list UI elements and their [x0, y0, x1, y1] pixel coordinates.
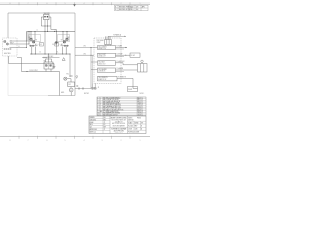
side fitting mark	[77, 85, 78, 86]
drain wire bottom	[75, 88, 91, 90]
meter right jog	[51, 26, 56, 32]
motor ground wire	[70, 92, 72, 96]
aux link K2	[59, 43, 61, 45]
contactor K2 coil terminals	[64, 45, 68, 47]
svg-text:6: 6	[47, 140, 48, 142]
switch box S1	[68, 82, 75, 87]
sheet top border outer line	[0, 2, 150, 4]
svg-text:RM: RM	[104, 119, 106, 121]
contactor K2 contact 2	[63, 41, 66, 44]
TB1 top arrow wire	[108, 35, 126, 37]
contactor K2 output	[65, 47, 67, 54]
connector J1 terminal dots	[4, 48, 11, 49]
aux block K1	[40, 43, 44, 47]
TB1 row 2 exit wire	[116, 54, 128, 56]
company block divider	[110, 126, 128, 128]
contactor K2 coil line	[61, 45, 69, 47]
enclosure box left edge lower faded	[7, 56, 9, 96]
svg-text:B221: B221	[138, 99, 141, 101]
svg-text:97: 97	[61, 40, 63, 42]
drain wire terminals	[78, 88, 84, 90]
TB1 left bus b	[92, 55, 94, 83]
TB1 row 1 exit wire b	[116, 48, 125, 50]
svg-text:B: B	[141, 125, 142, 127]
TB1 row 1 exit wire	[116, 47, 128, 49]
contactor K1 coil terminals	[30, 45, 34, 47]
lamp to switch wire	[67, 79, 71, 82]
approval rows left	[89, 116, 110, 134]
aux link K1	[38, 43, 40, 45]
top border zone ticks	[19, 2, 130, 5]
motor feed wire	[70, 87, 72, 89]
parts list row lines	[97, 99, 146, 114]
svg-text:STRIP: STRIP	[97, 42, 101, 44]
svg-text:TO PUMP: TO PUMP	[117, 53, 123, 55]
svg-text:GND: GND	[61, 92, 64, 94]
top border zone numerals	[10, 3, 141, 5]
svg-text:ENGR: ENGR	[90, 122, 94, 124]
svg-text:115V CONT: 115V CONT	[30, 70, 38, 72]
svg-text:CHECKED: CHECKED	[90, 119, 96, 121]
svg-text:D416: D416	[138, 108, 141, 110]
svg-text:WH MTR: WH MTR	[44, 13, 50, 15]
svg-text:FU: FU	[52, 44, 54, 46]
svg-text:FSCM: FSCM	[137, 117, 141, 119]
svg-text:DH: DH	[136, 6, 138, 8]
svg-text:1: 1	[140, 140, 141, 142]
sheet bottom border line	[0, 136, 150, 138]
bulkhead fitting	[76, 76, 78, 79]
svg-text:1190: 1190	[135, 128, 138, 130]
TB1 module pins up	[106, 36, 111, 39]
enclosure box left edge upper	[7, 13, 9, 38]
svg-text:PUMP: PUMP	[128, 89, 132, 91]
enclosure box right edge	[74, 13, 76, 96]
svg-text:8: 8	[10, 140, 11, 142]
bottom connector J2	[92, 87, 97, 89]
meter link dots	[45, 26, 49, 27]
svg-text:B222: B222	[138, 101, 141, 103]
wire phase A	[10, 32, 28, 42]
svg-text:TB1-2 CONT: TB1-2 CONT	[98, 54, 106, 56]
svg-text:SIZE B: SIZE B	[128, 117, 132, 119]
lamp terminals	[70, 75, 73, 76]
TB1 block row 4	[98, 68, 116, 72]
title block main dividers	[110, 116, 128, 134]
TB1 row 4 exit wire b	[116, 71, 125, 73]
contactor K1 coil line	[29, 45, 37, 47]
bottom border zone numerals	[10, 140, 141, 142]
transformer T1 feed	[46, 54, 52, 62]
approval rows text	[90, 116, 107, 134]
transformer T1 plug contacts	[45, 64, 51, 66]
connector J1 plug symbol	[4, 40, 9, 45]
svg-text:TB1-1 LINE IN: TB1-1 LINE IN	[98, 46, 106, 48]
meter M1 left leg	[41, 17, 43, 26]
aux box remote	[130, 53, 140, 57]
TB1 module pins down	[106, 45, 111, 46]
control run down leg	[59, 72, 61, 96]
contactor K1 output	[31, 47, 33, 54]
transformer T1 inner line	[48, 62, 50, 69]
svg-text:C311: C311	[138, 104, 141, 106]
svg-text:3: 3	[102, 140, 103, 142]
svg-text:DH: DH	[104, 117, 106, 119]
contactor K1 outline box	[29, 35, 41, 42]
svg-text:1-4-9: 1-4-9	[130, 6, 134, 8]
TB1 block row 5	[98, 76, 118, 81]
enclosure box top edge	[8, 12, 75, 14]
svg-text:K2: K2	[68, 37, 70, 39]
bus wire number labels	[37, 29, 57, 31]
svg-text:W1: W1	[84, 46, 86, 48]
revision table top right	[115, 5, 149, 11]
meter drop left	[44, 26, 46, 32]
pilot line	[42, 57, 60, 59]
aux block K2	[55, 43, 59, 47]
note flag triangle	[62, 58, 65, 61]
svg-text:PL1: PL1	[67, 74, 70, 76]
main power bus	[27, 31, 76, 33]
svg-text:7: 7	[28, 3, 29, 5]
TB1 left bus	[90, 48, 92, 89]
svg-text:SELECTOR SWITCH 3 POS: SELECTOR SWITCH 3 POS	[106, 109, 123, 111]
svg-text:2: 2	[121, 140, 122, 142]
enclosure box bottom edge faded part	[8, 95, 48, 97]
meter M1 dials	[44, 16, 48, 18]
svg-text:4: 4	[84, 3, 85, 5]
motor M	[69, 88, 73, 92]
svg-text:TO REMOTE: TO REMOTE	[118, 77, 126, 79]
svg-text:TB1-5 REMOTE: TB1-5 REMOTE	[98, 77, 108, 79]
svg-text:2-1-9: 2-1-9	[130, 9, 134, 11]
svg-text:E-10245: E-10245	[128, 125, 133, 127]
svg-text:K1: K1	[29, 37, 31, 39]
contactor K2 contact 1	[66, 38, 69, 41]
title right text	[128, 117, 143, 133]
TB1 row 5 exit wire	[117, 77, 133, 79]
svg-text:WT: WT	[141, 122, 143, 124]
contactor K1 drop 1	[30, 32, 32, 39]
svg-text:PILOT LIGHT RED 120V: PILOT LIGHT RED 120V	[106, 108, 121, 110]
svg-text:B: B	[115, 9, 116, 11]
svg-text:REV: REV	[135, 125, 138, 127]
pilot line terminals	[43, 57, 46, 58]
pilot lamp	[64, 77, 67, 80]
transformer T1 box	[44, 62, 53, 69]
feeder wire to TB1	[75, 47, 98, 49]
enclosure box bottom edge	[48, 95, 75, 97]
meter M1 right leg	[49, 17, 51, 26]
svg-text:5: 5	[65, 140, 66, 142]
svg-text:8: 8	[10, 3, 11, 5]
svg-text:JT: JT	[104, 122, 106, 124]
center drop contact	[55, 42, 57, 44]
svg-text:NOTE 2: NOTE 2	[84, 93, 89, 95]
parts list column lines	[100, 97, 142, 116]
svg-text:MFG: MFG	[90, 124, 93, 126]
TB1 row 2 arrowhead	[125, 55, 127, 56]
contactor K2 drop 2	[62, 32, 64, 41]
meter drop right	[47, 26, 49, 32]
title right grid	[128, 121, 147, 130]
contactor K1 output 2	[34, 47, 36, 54]
svg-text:TB1 TERM: TB1 TERM	[97, 40, 105, 42]
svg-text:C310: C310	[138, 103, 141, 105]
svg-text:6: 6	[47, 3, 48, 5]
lower bus junction dots	[31, 53, 70, 54]
TB1 row 2 exit wire b	[116, 56, 125, 58]
svg-text:2: 2	[121, 3, 122, 5]
meter M1 pins	[45, 20, 48, 26]
svg-text:E518: E518	[138, 109, 141, 111]
svg-text:NONE: NONE	[135, 122, 139, 124]
svg-text:RECP: RECP	[10, 43, 14, 45]
wire phase C	[10, 32, 27, 48]
svg-text:NOTE 1: NOTE 1	[140, 93, 145, 95]
top border center arrow	[73, 4, 76, 6]
contactor K1 contact 2	[32, 41, 35, 44]
TB1 block row 2	[98, 53, 116, 57]
svg-text:SHEET 1 OF 1: SHEET 1 OF 1	[115, 132, 123, 134]
svg-text:24VDC OUT: 24VDC OUT	[98, 64, 105, 66]
bottom connector stems	[93, 84, 96, 88]
company block lower text	[111, 127, 127, 134]
phase wire bend dots	[26, 41, 29, 48]
parts list table outline	[97, 97, 146, 116]
meter lower link	[41, 25, 51, 27]
wire ground run left	[9, 56, 55, 64]
contactor K2 output 2	[62, 47, 64, 54]
lower bus	[30, 53, 70, 55]
TB1 branch row 4	[91, 68, 98, 70]
contactor K1 contact 1	[30, 38, 33, 41]
ground symbol	[53, 64, 56, 69]
feeder wire 2 junction	[91, 55, 92, 56]
svg-text:DH: DH	[136, 9, 138, 11]
TB1 row 1 arrowhead	[125, 47, 127, 48]
contactor K2 outline box	[58, 35, 70, 42]
svg-text:FILE E10245.DWG: FILE E10245.DWG	[128, 132, 139, 134]
TB1 block row 3	[98, 61, 116, 65]
connector J1 dashed box	[3, 38, 18, 56]
svg-text:W2: W2	[84, 53, 86, 55]
company block text	[111, 117, 128, 128]
feeder wire 2 to TB1	[75, 54, 94, 56]
svg-text:D415: D415	[138, 106, 141, 108]
center drop left	[44, 32, 46, 55]
svg-text:7: 7	[28, 140, 29, 142]
remote device RD1	[138, 60, 148, 72]
TB1 branch row 3	[91, 61, 98, 63]
title block outline	[89, 116, 146, 134]
contactor K2 drop 1	[66, 32, 68, 39]
meter M1	[44, 14, 50, 19]
TB1 row 4 exit wire	[116, 69, 138, 71]
svg-text:4: 4	[84, 140, 85, 142]
junction control run	[26, 71, 27, 72]
TB1 left bus junction	[91, 47, 92, 48]
center drop right	[55, 32, 57, 55]
svg-text:KC: KC	[104, 124, 106, 126]
svg-text:FT: FT	[103, 111, 105, 113]
sheet top border main line	[0, 3, 150, 5]
TB1 block row 1	[98, 46, 116, 50]
contactor K1 drop 2	[34, 32, 36, 41]
bottom border zone ticks	[19, 136, 130, 139]
terminal strip TB1 dashed box	[94, 38, 121, 84]
parts list text	[98, 96, 144, 116]
svg-text:F620: F620	[138, 111, 141, 113]
bottom remote wire leg	[133, 78, 138, 88]
svg-text:CODE: CODE	[128, 128, 132, 130]
transformer T1 outputs	[46, 69, 51, 72]
bottom remote box	[128, 87, 138, 92]
svg-text:DWG NO: DWG NO	[128, 120, 133, 122]
aux box wire	[127, 54, 130, 56]
bus junction dots	[28, 31, 67, 32]
svg-text:5: 5	[65, 3, 66, 5]
TB1 relay module	[105, 40, 112, 45]
svg-text:3: 3	[102, 3, 103, 5]
wire neutral run	[17, 58, 22, 72]
svg-text:JT: JT	[104, 129, 106, 131]
svg-text:460V 3PH: 460V 3PH	[4, 53, 10, 55]
TB1 top arrowhead	[124, 36, 126, 37]
revision table text	[115, 5, 146, 11]
wire control run	[22, 71, 60, 73]
svg-text:J2: J2	[98, 87, 100, 89]
TB1 row 3 exit wire	[116, 62, 124, 64]
svg-text:OL: OL	[57, 51, 59, 53]
svg-text:TB2: TB2	[43, 60, 46, 62]
lamp wire down	[69, 54, 71, 77]
svg-text:OL: OL	[39, 51, 41, 53]
svg-text:1: 1	[140, 3, 141, 5]
wire phase B	[10, 32, 30, 45]
